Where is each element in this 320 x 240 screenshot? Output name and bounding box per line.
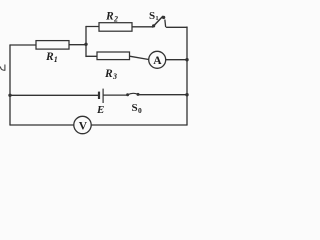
svg-text:R: R xyxy=(45,51,54,63)
svg-text:1: 1 xyxy=(155,15,158,22)
svg-text:S: S xyxy=(132,102,138,114)
left edge margin mark xyxy=(0,65,5,71)
wire R2 to switch xyxy=(132,26,153,28)
wire R1 to node xyxy=(69,44,86,46)
ammeter A xyxy=(149,51,166,68)
svg-text:V: V xyxy=(79,120,88,132)
svg-text:S: S xyxy=(149,10,155,22)
svg-text:2: 2 xyxy=(113,14,118,23)
wire R2 row left xyxy=(86,26,99,28)
resistor R2 xyxy=(99,10,132,31)
svg-text:R: R xyxy=(104,68,113,80)
svg-text:E: E xyxy=(96,104,104,116)
wire R3 to ammeter xyxy=(130,56,149,59)
voltmeter V xyxy=(74,116,91,133)
svg-text:R: R xyxy=(105,10,114,22)
svg-text:1: 1 xyxy=(54,55,58,64)
svg-text:0: 0 xyxy=(138,106,142,115)
node junction R1-branch xyxy=(84,43,87,46)
wire S0 to right rail xyxy=(139,94,187,96)
wire ammeter to right rail xyxy=(166,59,187,61)
wire battery to S0 xyxy=(104,94,127,96)
wire switch to corner xyxy=(167,26,188,28)
switch S0 xyxy=(126,93,142,115)
wire bottom rail xyxy=(10,124,187,126)
wire R3 row left xyxy=(86,55,97,57)
svg-text:A: A xyxy=(153,55,162,67)
wire left rail xyxy=(9,45,11,125)
node junction right rail battery row xyxy=(185,93,188,96)
node junction right rail ammeter row xyxy=(185,58,188,61)
svg-text:3: 3 xyxy=(112,72,117,81)
resistor R3 xyxy=(97,52,130,81)
wire R1 row left xyxy=(10,44,36,46)
battery E xyxy=(96,89,104,116)
wire branch vertical xyxy=(85,27,87,57)
wire right rail xyxy=(186,27,188,125)
switch S1 xyxy=(149,10,166,28)
node junction left rail battery row xyxy=(8,94,11,97)
wire battery row left xyxy=(10,94,99,96)
resistor R1 xyxy=(36,41,69,64)
